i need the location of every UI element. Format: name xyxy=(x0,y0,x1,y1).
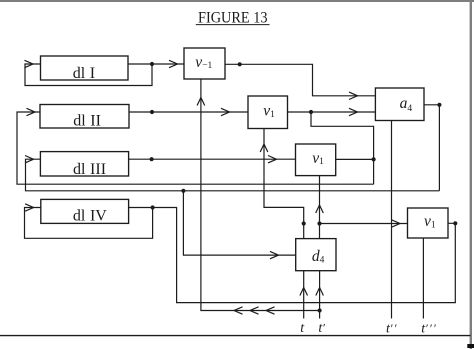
wire t-triple-prime to v1 right bottom xyxy=(422,238,424,319)
bottom-right corner mark xyxy=(467,344,474,348)
wire t input up into d4 bottom xyxy=(303,271,305,319)
node a4 output xyxy=(437,103,441,107)
delay line dl II xyxy=(40,105,129,129)
node d4 top line t-prime path xyxy=(317,221,321,225)
svg-text:v−1: v−1 xyxy=(195,54,212,71)
wire junction to v_-1 input xyxy=(152,63,184,65)
node v1 row2 output xyxy=(309,110,313,114)
wire t-double-prime to a4 bottom xyxy=(391,121,393,319)
svg-text:dl IV: dl IV xyxy=(73,207,107,224)
svg-text:t′′′: t′′′ xyxy=(421,321,437,337)
wire v1 right output return to dl IV loop xyxy=(153,208,456,303)
arrow up into d4 bottom from t xyxy=(300,288,308,296)
arrow into d4 xyxy=(270,251,279,258)
svg-text:v1: v1 xyxy=(312,150,324,167)
node v1 row3 output junction xyxy=(372,157,376,161)
arrow into dl III xyxy=(25,156,34,163)
svg-text:v1: v1 xyxy=(263,103,275,120)
wire v1 row3 bottom to d4 top xyxy=(319,176,321,239)
node dl I output xyxy=(150,62,154,66)
label t-triple-prime xyxy=(421,321,437,337)
wire t-prime input up into d4 bottom xyxy=(319,271,321,319)
wire a4 output down to feedback line 2 xyxy=(424,105,439,191)
svg-text:t: t xyxy=(300,321,305,336)
wire v1 row3 output xyxy=(336,158,374,160)
arrow into dl I xyxy=(25,60,34,67)
arrow into v1 row3 xyxy=(268,156,277,163)
arrow into v1 right xyxy=(392,220,401,227)
svg-text:dl III: dl III xyxy=(73,161,106,178)
arrow into v_-1 xyxy=(169,60,178,67)
svg-text:d4: d4 xyxy=(312,248,325,266)
node dl III output xyxy=(150,157,154,161)
wire feedback line 2 to dl III input xyxy=(26,159,440,191)
wire d4 top junction to v1 right input xyxy=(320,223,408,225)
distributor d4 xyxy=(296,239,336,271)
delay line dl III xyxy=(40,152,128,176)
wire dl I output to junction xyxy=(128,63,152,65)
wire t-prime riser to v_-1 bottom input xyxy=(201,79,320,311)
svg-text:FIGURE 13: FIGURE 13 xyxy=(198,8,268,27)
delay line dl I xyxy=(41,56,129,80)
node v1 right output xyxy=(453,221,457,225)
arrow left on regeneration line 1 of 3 xyxy=(234,307,243,314)
wire dl I feedback loop xyxy=(25,64,152,86)
screenshot top gray bar xyxy=(0,0,474,2)
svg-text:a4: a4 xyxy=(400,95,413,114)
node dl II output xyxy=(150,110,154,114)
arrow up into v_-1 bottom xyxy=(197,98,205,106)
svg-text:dl I: dl I xyxy=(73,65,95,82)
svg-text:t′′: t′′ xyxy=(386,321,398,337)
arrow left on regeneration line 2 of 3 xyxy=(250,307,259,314)
node t-prime junction with regeneration line xyxy=(318,308,322,312)
valve v1 row3 U3 xyxy=(296,144,336,176)
valve v1 row2 U2 xyxy=(248,96,288,129)
wire v1 row2 output to a4 input 2 xyxy=(288,111,376,113)
screenshot right gray bar xyxy=(470,0,472,349)
wire v_-1 output to a4 input 1 xyxy=(225,64,375,96)
title FIGURE 13 xyxy=(198,8,268,27)
wire v1 row2 output branch down to feedback line 1 xyxy=(311,112,374,184)
wire dl IV feedback loop xyxy=(25,208,153,239)
frame bottom border xyxy=(0,335,471,337)
arrow into a4 input 2 xyxy=(349,108,358,115)
svg-text:v1: v1 xyxy=(424,213,436,230)
node dl IV output xyxy=(151,205,155,209)
arrow up into d4 bottom from t-prime xyxy=(316,288,324,296)
arrow left on regeneration line 3 of 3 xyxy=(266,307,275,314)
arrow up into v1 row2 bottom xyxy=(260,144,268,152)
node feedback line 2 branch xyxy=(181,189,185,193)
arrow up into v1 row3 bottom xyxy=(316,205,324,213)
valve v_-1 U1 xyxy=(184,48,225,79)
wire branch down to d4 input xyxy=(183,191,295,255)
label t xyxy=(300,321,305,336)
node v_-1 output xyxy=(238,62,242,66)
label t-double-prime xyxy=(386,321,398,337)
delay line dl IV xyxy=(41,199,129,223)
wire feedback line 1 to dl II input xyxy=(17,112,374,184)
arrow into a4 input 1 xyxy=(349,92,358,99)
wire v1 row2 bottom to d4 top xyxy=(264,129,304,239)
adder a4 xyxy=(375,88,424,121)
title underline xyxy=(196,24,270,26)
arrow into v1 row2 xyxy=(221,108,230,115)
node d4 top line t path xyxy=(302,221,306,225)
svg-text:dl II: dl II xyxy=(73,112,101,129)
wire dl II output to v1 row2 input xyxy=(129,111,248,113)
wire dl IV output to junction xyxy=(129,207,153,209)
wire dl III output to v1 row3 input xyxy=(129,158,296,160)
arrow into dl II xyxy=(27,108,36,115)
label t-prime xyxy=(318,320,325,336)
svg-text:t′: t′ xyxy=(318,320,325,336)
arrow into dl IV xyxy=(25,204,33,211)
valve v1 right U4 xyxy=(408,208,449,238)
